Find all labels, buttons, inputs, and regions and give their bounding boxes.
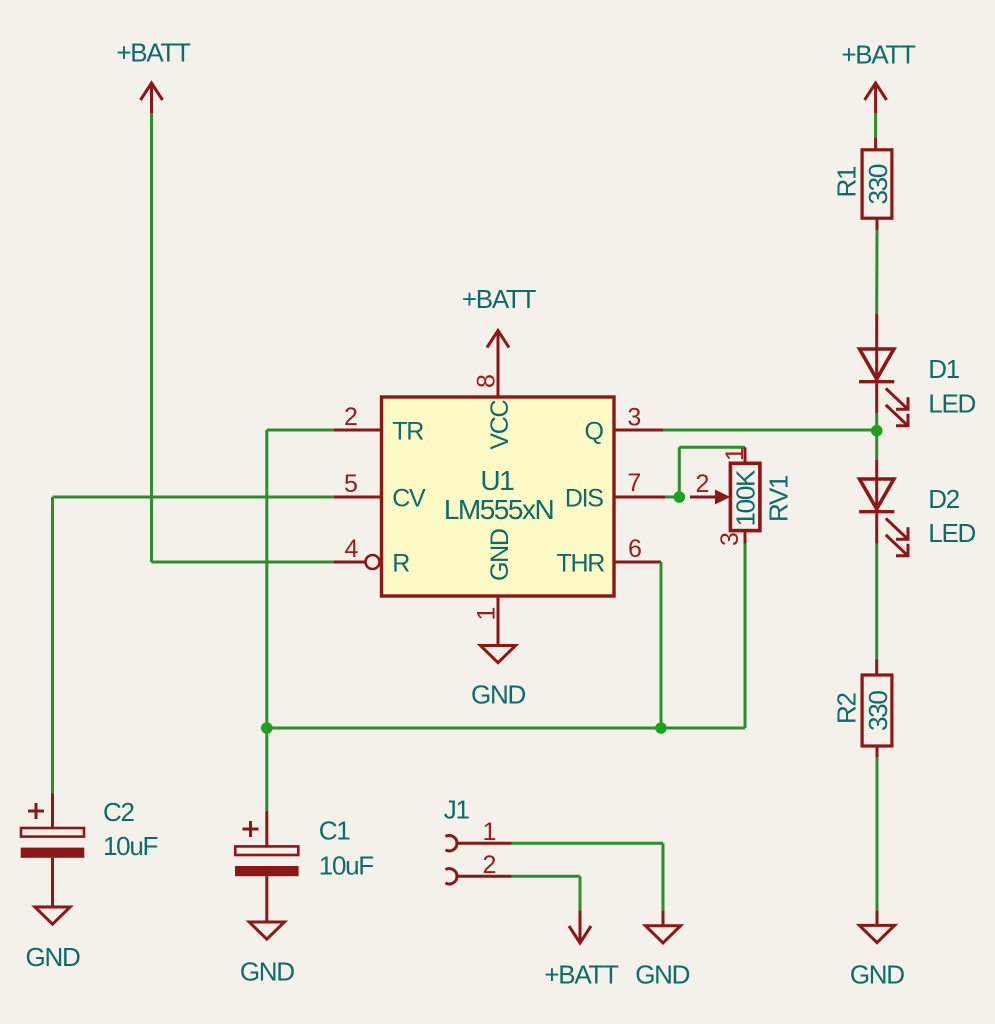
svg-text:R2: R2 [832, 693, 862, 724]
svg-text:LED: LED [928, 389, 975, 419]
svg-text:C2: C2 [103, 797, 134, 827]
svg-text:1: 1 [483, 818, 496, 846]
svg-text:J1: J1 [444, 795, 470, 825]
svg-text:7: 7 [627, 469, 640, 497]
svg-text:D2: D2 [928, 484, 959, 514]
svg-text:2: 2 [483, 851, 496, 879]
svg-text:GND: GND [486, 529, 514, 581]
svg-text:330: 330 [863, 164, 893, 204]
svg-text:THR: THR [557, 550, 605, 578]
svg-text:RV1: RV1 [764, 475, 794, 522]
svg-text:5: 5 [344, 470, 357, 498]
svg-text:+BATT: +BATT [841, 40, 916, 70]
svg-text:+BATT: +BATT [544, 960, 619, 990]
svg-text:1: 1 [473, 608, 501, 621]
svg-text:+BATT: +BATT [462, 284, 537, 314]
svg-text:GND: GND [471, 680, 525, 710]
svg-text:Q: Q [584, 418, 603, 446]
svg-text:3: 3 [716, 533, 744, 546]
svg-text:R: R [392, 550, 409, 578]
svg-text:10uF: 10uF [103, 831, 157, 861]
svg-text:3: 3 [627, 404, 640, 432]
svg-text:DIS: DIS [565, 485, 603, 513]
svg-text:GND: GND [850, 960, 904, 990]
svg-text:2: 2 [344, 403, 357, 431]
svg-text:GND: GND [635, 960, 689, 990]
svg-text:+BATT: +BATT [116, 38, 191, 68]
svg-text:R1: R1 [832, 166, 862, 197]
svg-text:CV: CV [392, 485, 426, 513]
svg-text:6: 6 [628, 535, 641, 563]
svg-text:1: 1 [721, 448, 749, 461]
svg-text:TR: TR [392, 418, 423, 446]
svg-text:2: 2 [696, 470, 709, 498]
svg-text:LM555xN: LM555xN [444, 494, 553, 525]
svg-text:VCC: VCC [486, 399, 514, 449]
svg-text:8: 8 [473, 375, 501, 388]
svg-text:GND: GND [26, 942, 80, 972]
svg-text:C1: C1 [319, 816, 350, 846]
svg-text:LED: LED [928, 518, 975, 548]
svg-text:100K: 100K [731, 469, 761, 526]
svg-text:10uF: 10uF [319, 851, 373, 881]
svg-text:330: 330 [863, 691, 893, 731]
svg-text:GND: GND [240, 957, 294, 987]
svg-text:U1: U1 [480, 465, 514, 496]
svg-text:D1: D1 [928, 354, 959, 384]
svg-text:4: 4 [345, 535, 359, 563]
